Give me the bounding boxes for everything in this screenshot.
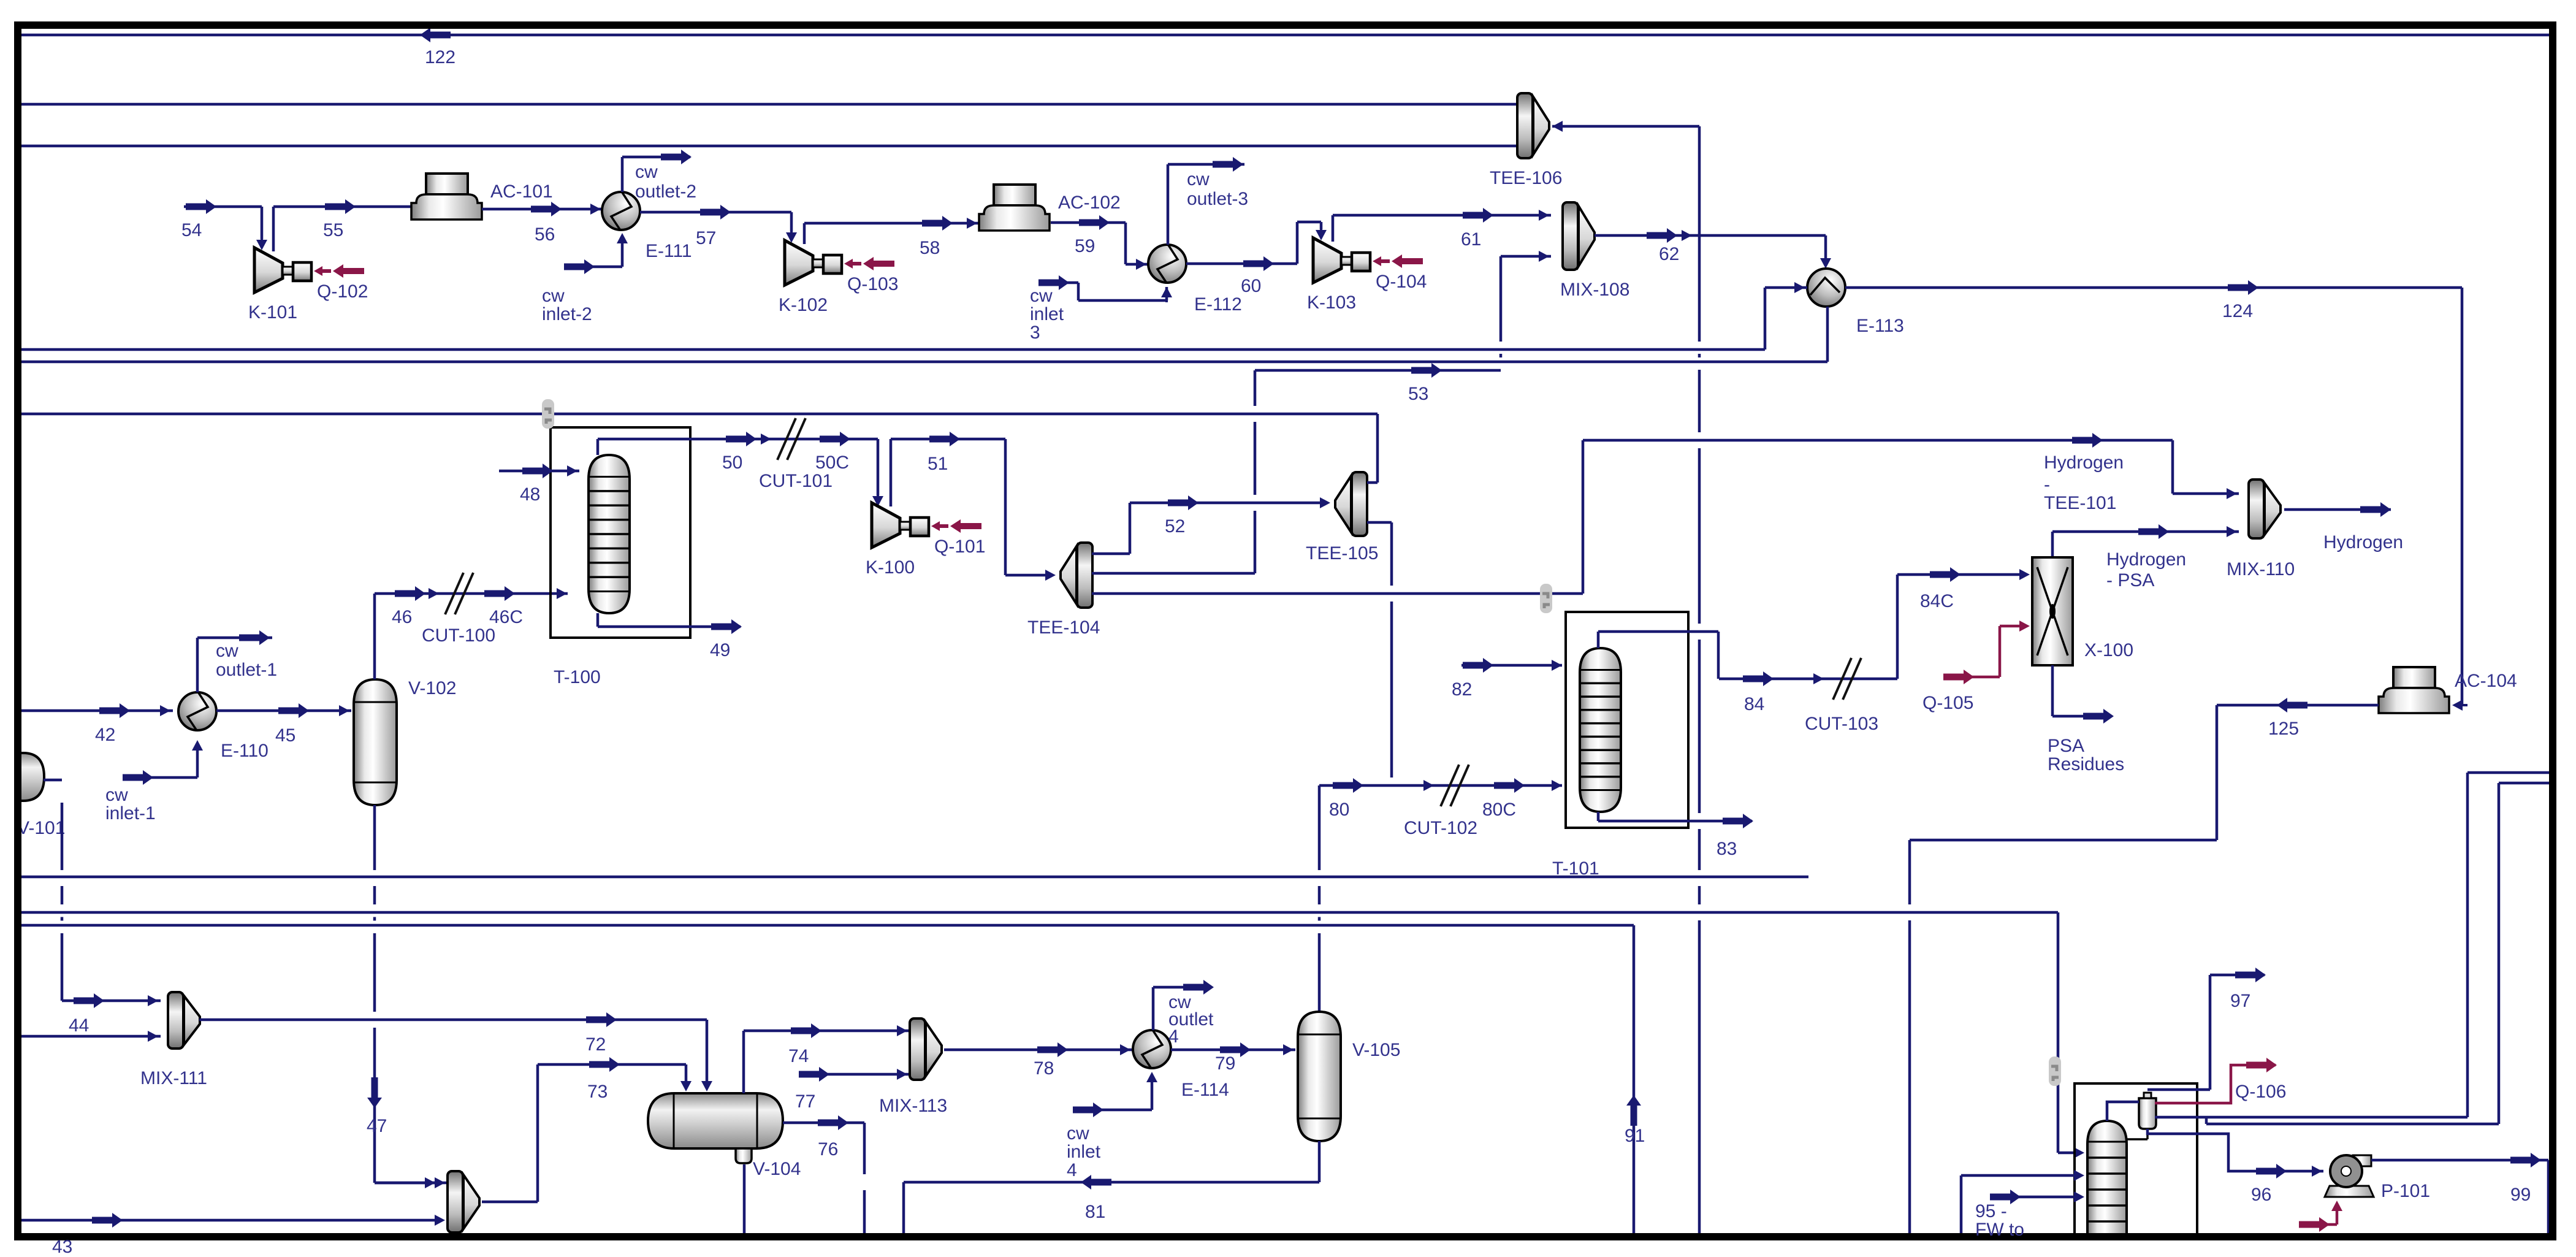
- svg-text:T-101: T-101: [1552, 858, 1599, 879]
- svg-text:- PSA: - PSA: [2106, 570, 2154, 590]
- svg-text:cw: cw: [1030, 286, 1053, 306]
- svg-text:V-102: V-102: [408, 678, 456, 698]
- svg-text:K-102: K-102: [779, 295, 828, 315]
- svg-text:72: 72: [585, 1034, 606, 1055]
- svg-text:62: 62: [1659, 244, 1679, 264]
- svg-text:Q-102: Q-102: [317, 281, 368, 302]
- svg-text:-: -: [2044, 475, 2050, 495]
- svg-text:82: 82: [1452, 679, 1472, 700]
- svg-text:cw: cw: [1187, 169, 1210, 189]
- svg-text:Residues: Residues: [2048, 754, 2124, 774]
- svg-text:Hydrogen: Hydrogen: [2106, 549, 2186, 570]
- svg-text:42: 42: [95, 725, 115, 745]
- svg-text:84C: 84C: [1920, 591, 1954, 611]
- svg-text:59: 59: [1075, 236, 1095, 256]
- svg-text:E-110: E-110: [221, 741, 269, 761]
- svg-text:57: 57: [696, 228, 716, 248]
- svg-text:46C: 46C: [489, 607, 523, 627]
- svg-text:73: 73: [587, 1082, 608, 1102]
- svg-text:45: 45: [275, 725, 295, 746]
- svg-text:3: 3: [1030, 323, 1040, 343]
- svg-text:AC-104: AC-104: [2455, 671, 2517, 691]
- svg-text:84: 84: [1744, 694, 1764, 714]
- svg-text:X-100: X-100: [2084, 640, 2133, 660]
- svg-text:CUT-100: CUT-100: [422, 625, 495, 646]
- svg-text:95 -: 95 -: [1975, 1201, 2007, 1221]
- svg-text:K-100: K-100: [866, 557, 915, 578]
- svg-text:47: 47: [367, 1116, 387, 1136]
- svg-text:TEE-105: TEE-105: [1306, 543, 1378, 564]
- svg-text:76: 76: [818, 1139, 838, 1160]
- svg-text:99: 99: [2510, 1185, 2531, 1205]
- svg-text:83: 83: [1717, 839, 1737, 859]
- svg-text:Q-101: Q-101: [934, 537, 985, 557]
- svg-text:outlet-2: outlet-2: [635, 181, 696, 202]
- svg-text:Q-103: Q-103: [847, 274, 898, 294]
- svg-text:outlet-1: outlet-1: [216, 660, 277, 680]
- svg-text:PSA: PSA: [2048, 736, 2084, 756]
- svg-text:Q-105: Q-105: [1922, 693, 1973, 713]
- svg-text:CUT-101: CUT-101: [759, 471, 833, 491]
- svg-text:4: 4: [1168, 1026, 1179, 1047]
- svg-text:54: 54: [181, 220, 202, 240]
- svg-text:CUT-102: CUT-102: [1404, 818, 1477, 838]
- svg-text:91: 91: [1625, 1126, 1645, 1146]
- svg-text:78: 78: [1034, 1058, 1054, 1079]
- svg-text:V-101: V-101: [17, 818, 65, 838]
- svg-text:Q-104: Q-104: [1376, 272, 1427, 292]
- svg-text:61: 61: [1461, 229, 1481, 250]
- svg-text:4: 4: [1067, 1160, 1077, 1180]
- svg-text:80: 80: [1329, 800, 1349, 820]
- svg-text:58: 58: [920, 238, 940, 258]
- svg-text:49: 49: [710, 640, 730, 660]
- svg-text:AC-102: AC-102: [1058, 193, 1121, 213]
- svg-text:AC-101: AC-101: [490, 181, 553, 202]
- svg-text:97: 97: [2230, 991, 2250, 1011]
- svg-text:TEE-106: TEE-106: [1490, 168, 1562, 188]
- svg-text:MIX-108: MIX-108: [1560, 280, 1629, 300]
- svg-text:56: 56: [535, 224, 555, 245]
- svg-text:43: 43: [52, 1237, 72, 1257]
- svg-text:Hydrogen: Hydrogen: [2044, 453, 2124, 473]
- svg-text:T-100: T-100: [554, 667, 601, 687]
- svg-text:K-103: K-103: [1307, 292, 1356, 313]
- svg-text:50: 50: [722, 453, 742, 473]
- svg-text:79: 79: [1215, 1053, 1235, 1074]
- svg-text:TEE-101: TEE-101: [2044, 493, 2116, 513]
- svg-text:55: 55: [323, 220, 343, 240]
- svg-text:MIX-111: MIX-111: [140, 1068, 207, 1088]
- svg-text:80C: 80C: [1482, 800, 1516, 820]
- svg-text:TEE-104: TEE-104: [1027, 617, 1100, 638]
- svg-text:74: 74: [788, 1046, 809, 1066]
- svg-text:125: 125: [2268, 719, 2299, 739]
- svg-text:inlet: inlet: [1030, 304, 1064, 324]
- svg-text:cw: cw: [105, 785, 128, 805]
- svg-text:outlet-3: outlet-3: [1187, 189, 1248, 209]
- svg-text:E-112: E-112: [1194, 294, 1242, 315]
- svg-text:cw: cw: [1067, 1123, 1089, 1144]
- svg-text:122: 122: [425, 47, 455, 67]
- svg-text:E-113: E-113: [1856, 316, 1904, 336]
- svg-text:cw: cw: [635, 162, 658, 182]
- svg-text:FW to: FW to: [1975, 1220, 2024, 1240]
- svg-text:Hydrogen: Hydrogen: [2323, 532, 2403, 552]
- svg-text:52: 52: [1165, 516, 1185, 537]
- svg-text:81: 81: [1085, 1202, 1105, 1222]
- svg-text:77: 77: [795, 1091, 815, 1112]
- svg-text:cw: cw: [216, 641, 238, 661]
- svg-text:P-101: P-101: [2381, 1181, 2430, 1201]
- svg-text:50C: 50C: [815, 453, 849, 473]
- svg-text:cw: cw: [542, 286, 565, 306]
- svg-text:K-101: K-101: [248, 302, 297, 323]
- svg-text:V-105: V-105: [1352, 1040, 1400, 1060]
- svg-text:E-111: E-111: [646, 241, 692, 261]
- svg-text:48: 48: [520, 484, 540, 505]
- svg-text:46: 46: [392, 607, 412, 627]
- svg-text:124: 124: [2222, 301, 2253, 321]
- svg-text:CUT-103: CUT-103: [1805, 714, 1878, 734]
- svg-text:44: 44: [69, 1015, 89, 1036]
- svg-text:MIX-110: MIX-110: [2227, 559, 2295, 579]
- svg-text:Q-106: Q-106: [2235, 1082, 2286, 1102]
- svg-text:60: 60: [1241, 276, 1261, 296]
- svg-text:V-104: V-104: [753, 1159, 801, 1179]
- svg-text:53: 53: [1408, 384, 1428, 404]
- svg-text:inlet-2: inlet-2: [542, 304, 592, 324]
- svg-text:MIX-113: MIX-113: [879, 1096, 947, 1116]
- svg-text:inlet: inlet: [1067, 1142, 1101, 1162]
- svg-text:E-114: E-114: [1181, 1080, 1229, 1100]
- svg-text:51: 51: [928, 454, 948, 474]
- svg-text:96: 96: [2251, 1185, 2271, 1205]
- svg-text:inlet-1: inlet-1: [105, 803, 156, 823]
